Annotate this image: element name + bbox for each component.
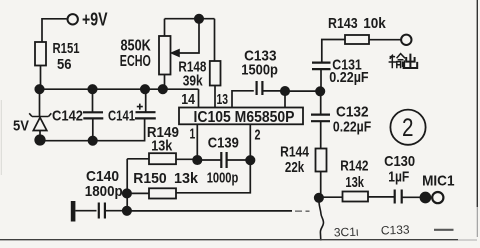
border right	[476, 0, 478, 207]
resistor R143	[322, 35, 401, 62]
node C142 top	[88, 85, 96, 93]
potentiometer 850K ECHO	[159, 19, 215, 90]
capacitor C139	[197, 152, 250, 168]
node R150 left	[123, 189, 131, 197]
svg-text:2: 2	[402, 114, 414, 142]
capacitor C131	[312, 63, 331, 92]
svg-text:10k: 10k	[363, 15, 386, 32]
wire bottom rail	[127, 210, 292, 212]
wire C133 node to C131 node	[285, 90, 321, 92]
svg-text:1µF: 1µF	[388, 169, 409, 186]
svg-text:13k: 13k	[345, 174, 364, 191]
svg-text:1800p: 1800p	[85, 183, 123, 200]
wire pin 1	[196, 124, 198, 160]
svg-text:MIC1: MIC1	[422, 173, 454, 190]
svg-text:1000p: 1000p	[207, 170, 239, 187]
capacitor C133	[257, 81, 285, 95]
svg-text:IC105 M65850P: IC105 M65850P	[194, 109, 295, 126]
node zener bottom	[35, 135, 45, 145]
svg-text:5V: 5V	[13, 118, 29, 135]
svg-text:R151: R151	[53, 40, 80, 57]
wire pin2 down to R150	[177, 160, 251, 193]
wire pin below C133 right	[284, 91, 286, 107]
wire +9V to R151	[42, 19, 67, 42]
svg-text:C142: C142	[52, 108, 83, 125]
svg-text:C133: C133	[381, 222, 410, 237]
svg-text:1500p: 1500p	[241, 62, 278, 79]
border bottom	[0, 239, 458, 241]
svg-text:2: 2	[255, 127, 261, 144]
node C131-C132 junction	[316, 87, 324, 95]
border left faint	[0, 100, 2, 175]
wire R151 bottom to rail	[40, 66, 42, 90]
capacitor C140 with terminal bar	[71, 201, 127, 222]
svg-text:0.22µF: 0.22µF	[329, 69, 368, 86]
terminal +9V circle	[68, 14, 78, 24]
svg-text:39k: 39k	[183, 72, 204, 89]
svg-text:R142: R142	[340, 157, 368, 174]
node C133 right	[281, 87, 289, 95]
wire C133 left pin	[232, 91, 254, 108]
capacitor C141	[135, 89, 156, 118]
op-amp substitute: IC105 box	[179, 108, 303, 125]
resistor R151	[35, 42, 46, 66]
node pin2	[246, 156, 254, 164]
svg-text:56: 56	[57, 56, 72, 73]
svg-text:ECHO: ECHO	[120, 53, 151, 70]
node pin1	[193, 156, 201, 164]
svg-text:R150: R150	[133, 170, 166, 187]
node C142 bottom	[89, 137, 97, 145]
wire pin 2	[249, 124, 251, 160]
svg-text:850K: 850K	[121, 37, 152, 54]
svg-text:13: 13	[217, 91, 229, 108]
node circled 2	[390, 110, 425, 145]
node MIC1 dot	[420, 193, 430, 203]
wire short dash right bottom	[434, 229, 454, 231]
wire left vertical bus	[126, 159, 128, 211]
capacitor C132	[311, 91, 330, 148]
zener diode 5V	[29, 89, 51, 140]
resistor R142	[319, 192, 394, 202]
node pot bottom	[159, 85, 167, 93]
wire pin 14 drop	[198, 89, 200, 107]
resistor R150	[127, 188, 176, 198]
node rail-R151	[35, 85, 43, 93]
node wiper-top junction	[195, 15, 203, 23]
svg-text:R143: R143	[328, 15, 358, 32]
svg-text:13k: 13k	[174, 170, 199, 187]
terminal MIC1 circle	[432, 192, 443, 203]
svg-text:14: 14	[181, 91, 195, 108]
node C141 top	[141, 85, 149, 93]
capacitor C130	[395, 190, 421, 204]
svg-text:13k: 13k	[151, 137, 173, 154]
wire upper rail	[39, 88, 199, 90]
resistor R149	[127, 153, 197, 164]
svg-text:+9V: +9V	[82, 10, 108, 30]
svg-text:0.22µF: 0.22µF	[333, 119, 371, 136]
svg-text:3C1ι: 3C1ι	[334, 225, 359, 240]
capacitor C142	[83, 89, 103, 141]
wire lower rail	[39, 119, 145, 141]
wire faint bottom remnants	[334, 222, 410, 239]
resistor R144	[316, 149, 327, 198]
terminal output circle	[401, 35, 411, 45]
node output label (Chinese) 输出	[389, 54, 418, 69]
node R144 bottom	[315, 194, 323, 202]
svg-text:C139: C139	[208, 135, 239, 152]
node C140 rail	[123, 207, 131, 215]
wire squiggle below R142 node	[319, 198, 324, 241]
svg-text:C130: C130	[384, 153, 415, 170]
resistor R148	[210, 19, 221, 108]
svg-text:22k: 22k	[285, 159, 305, 176]
svg-text:1: 1	[190, 125, 196, 142]
svg-text:C141: C141	[108, 108, 135, 125]
